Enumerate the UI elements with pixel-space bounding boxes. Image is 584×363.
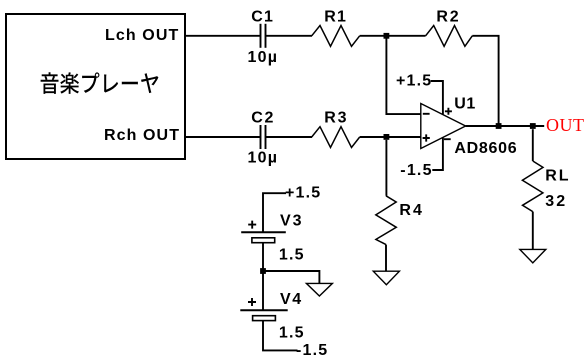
svg-text:+1.5: +1.5 — [396, 73, 432, 90]
svg-text:C2: C2 — [251, 109, 275, 126]
svg-text:10µ: 10µ — [248, 49, 279, 66]
wire node B to noninverting input — [386, 136, 420, 138]
op-amp U1 — [421, 104, 466, 149]
svg-text:U1: U1 — [454, 96, 476, 113]
node D load junction — [530, 123, 536, 129]
battery V3 — [241, 221, 286, 243]
wire node B to R4 — [385, 140, 387, 196]
wire +1.5 to V3 — [263, 193, 286, 232]
resistor R3 — [312, 127, 360, 148]
wire R4 to ground — [385, 245, 387, 272]
svg-text:-1.5: -1.5 — [296, 342, 328, 359]
svg-text:R4: R4 — [399, 202, 423, 219]
wire +1.5 to U1 V+ — [431, 81, 443, 114]
capacitor C2 — [261, 125, 266, 149]
svg-text:-1.5: -1.5 — [400, 162, 432, 179]
wire U1 output to OUT — [466, 125, 545, 127]
wire C2 to R3 — [266, 136, 313, 138]
battery V4 — [240, 298, 287, 321]
svg-text:V3: V3 — [280, 212, 304, 229]
svg-text:RL: RL — [545, 168, 570, 185]
label 音楽プレーヤ — [41, 72, 159, 94]
ground (RL) — [520, 249, 546, 263]
wire RL to ground — [532, 212, 534, 250]
node E supply midpoint — [260, 268, 266, 274]
svg-text:32: 32 — [545, 193, 567, 210]
resistor RL — [522, 161, 543, 212]
wire C1 to R1 — [266, 35, 313, 37]
svg-text:OUT: OUT — [546, 115, 584, 135]
node B junction R3 R4 noninverting — [384, 134, 390, 140]
wire node A to R2 — [386, 35, 425, 37]
svg-text:V4: V4 — [280, 291, 303, 308]
svg-text:Rch OUT: Rch OUT — [104, 127, 180, 144]
capacitor C1 — [261, 24, 266, 48]
svg-text:R3: R3 — [324, 109, 348, 126]
music player box — [6, 14, 185, 159]
svg-text:R1: R1 — [324, 8, 347, 25]
wire Lch OUT to C1 — [185, 35, 260, 37]
resistor R2 — [426, 26, 473, 47]
resistor R1 — [312, 26, 360, 47]
svg-text:AD8606: AD8606 — [454, 140, 517, 157]
svg-text:+1.5: +1.5 — [285, 185, 321, 202]
wire R2 to output node — [472, 36, 498, 126]
wire R1 to node A — [360, 35, 387, 37]
ground (supply midpoint) — [306, 283, 332, 296]
node A junction R1 R2 inverting — [384, 33, 390, 39]
resistor R4 — [376, 196, 397, 245]
svg-text:10µ: 10µ — [248, 149, 279, 166]
wire node E to V4 — [262, 271, 264, 310]
node C feedback junction — [496, 123, 502, 129]
wire Rch OUT to C2 — [185, 136, 260, 138]
wire -1.5 to U1 V- — [432, 138, 443, 170]
svg-text:Lch OUT: Lch OUT — [105, 27, 179, 44]
wire V4 to -1.5 — [263, 321, 298, 350]
svg-text:1.5: 1.5 — [279, 324, 305, 341]
svg-text:1.5: 1.5 — [279, 247, 305, 264]
svg-text:R2: R2 — [436, 8, 460, 25]
wire node D to RL — [532, 129, 534, 161]
svg-text:C1: C1 — [251, 8, 274, 25]
wire V3 to node E — [262, 243, 264, 271]
wire node E to ground — [263, 271, 319, 283]
wire R3 to node B — [360, 136, 387, 138]
ground (R4) — [373, 271, 399, 285]
wire node A to inverting input — [386, 36, 420, 114]
